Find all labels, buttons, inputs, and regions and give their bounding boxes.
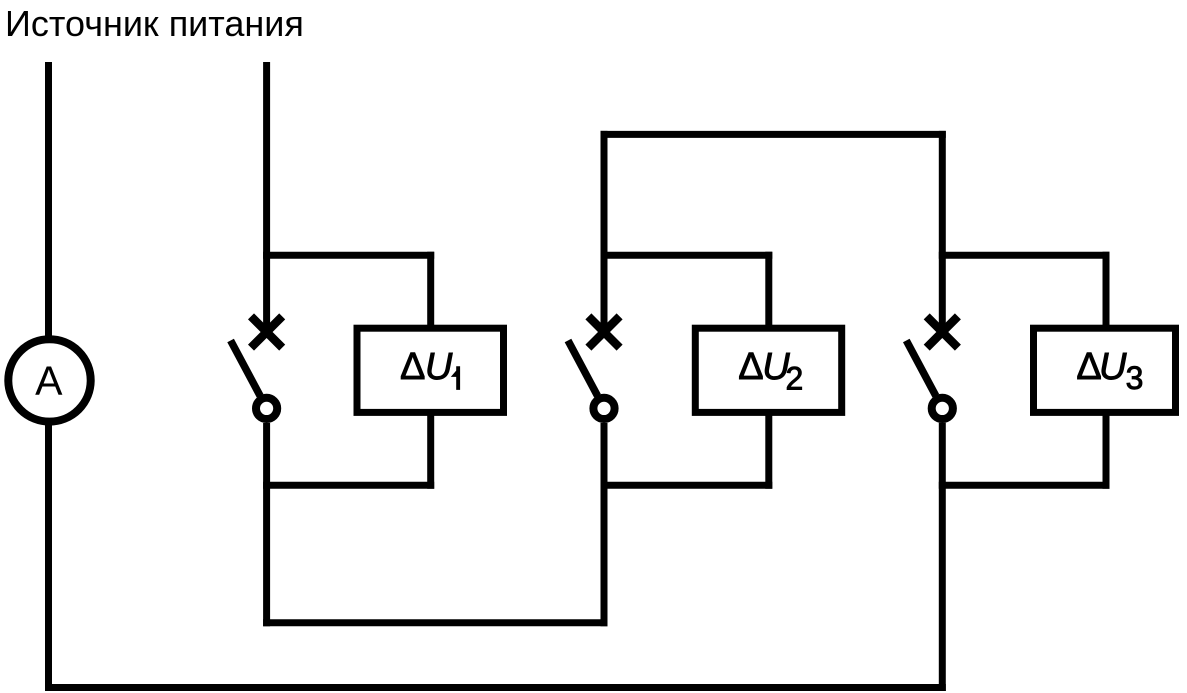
box ΔU2	[695, 328, 841, 412]
wire: assembly 2 top link	[601, 252, 773, 259]
switch Q3 X contact	[927, 316, 958, 347]
svg-text:ΔU: ΔU	[738, 346, 790, 388]
wire: ammeter bottom down to bottom bus	[45, 425, 52, 691]
wire: assembly 1 bottom link	[263, 482, 434, 489]
wire: box ΔU1 bottom lead	[427, 412, 434, 488]
svg-text:ΔU: ΔU	[400, 346, 453, 388]
wire: middle riser upper, top bus down to breaker Q2 contact	[601, 131, 608, 332]
wire: right riser upper, top bus down to breaker Q3 contact	[939, 131, 946, 332]
box ΔU1	[357, 328, 504, 412]
box ΔU3	[1034, 328, 1176, 412]
switch Q3 lever	[906, 341, 936, 396]
svg-text:2: 2	[785, 360, 803, 396]
switch Q2 hinge circle	[593, 398, 614, 419]
wire: supply left lead down to ammeter	[45, 62, 52, 336]
switch Q2 lever	[568, 341, 598, 396]
switch Q1 X contact	[251, 316, 282, 347]
wire: assembly 3 top link	[939, 252, 1110, 259]
wire: box ΔU2 top lead	[765, 252, 772, 329]
wire: box ΔU1 top lead	[427, 252, 434, 329]
wire: box ΔU3 bottom lead	[1103, 412, 1110, 488]
switch Q1 lever	[231, 341, 261, 396]
svg-text:Источник питания: Источник питания	[5, 3, 304, 44]
wire: assembly 3 bottom link	[939, 482, 1110, 489]
wire: below switch Q2 down to middle bus	[601, 423, 608, 626]
wire: assembly 2 bottom link	[601, 482, 773, 489]
svg-text:ΔU: ΔU	[1076, 346, 1127, 388]
switch Q1 hinge circle	[256, 398, 277, 419]
switch Q2 X contact	[588, 316, 619, 347]
wire: bottom bus	[45, 684, 946, 691]
wire: middle bus	[263, 619, 607, 626]
wire: top bus	[601, 131, 946, 138]
wire: right riser lower, bottom bus up to switch Q3 hinge	[939, 423, 946, 691]
wire: box ΔU2 bottom lead	[765, 412, 772, 488]
svg-text:3: 3	[1126, 360, 1144, 396]
wire: box ΔU3 top lead	[1103, 252, 1110, 329]
wire: below switch Q1 down to middle bus	[263, 423, 270, 626]
svg-text:A: A	[35, 357, 63, 403]
wire: supply right lead down to breaker Q1 contact	[263, 62, 270, 332]
wire: assembly 1 top link	[263, 252, 434, 259]
ammeter PA1 circle	[8, 339, 90, 421]
switch Q3 hinge circle	[932, 398, 953, 419]
